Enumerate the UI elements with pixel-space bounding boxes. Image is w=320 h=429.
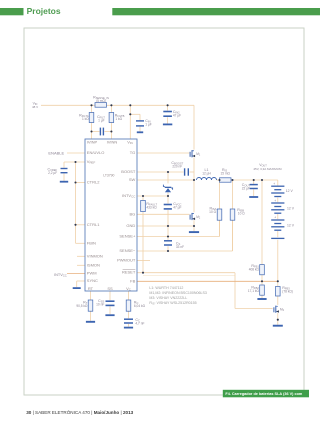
svg-text:FB: FB [130, 278, 135, 283]
svg-text:433 kΩ: 433 kΩ [146, 206, 157, 210]
svg-text:BOOST: BOOST [121, 169, 136, 174]
svg-text:TG: TG [130, 150, 136, 155]
svg-text:IVINN: IVINN [107, 140, 118, 145]
svg-text:ISMON: ISMON [87, 262, 100, 267]
svg-text:CTRL2: CTRL2 [87, 180, 100, 185]
svg-text:VINMON: VINMON [87, 253, 103, 258]
svg-text:15 mΩ: 15 mΩ [220, 171, 230, 175]
svg-text:L1: WURTH 7447112: L1: WURTH 7447112 [149, 286, 183, 290]
svg-text:22 µF: 22 µF [242, 187, 250, 191]
svg-text:12 V: 12 V [286, 189, 294, 193]
svg-text:12 V: 12 V [287, 207, 295, 211]
svg-text:47 µF: 47 µF [173, 206, 181, 210]
svg-text:2,2 µF: 2,2 µF [48, 171, 57, 175]
svg-text:SENSE+: SENSE+ [119, 234, 136, 239]
svg-text:(78 kΩ): (78 kΩ) [282, 290, 293, 294]
svg-text:M3: M3 [280, 308, 285, 313]
svg-text:INTVCC: INTVCC [54, 273, 67, 278]
svg-text:47 µF: 47 µF [173, 113, 181, 117]
svg-text:6,04 kΩ: 6,04 kΩ [134, 304, 146, 308]
svg-text:10 Ω: 10 Ω [209, 210, 216, 214]
svg-text:FBIN: FBIN [87, 240, 96, 245]
svg-text:220 nF: 220 nF [172, 165, 182, 169]
svg-text:+: + [273, 182, 275, 186]
svg-text:SENSE−: SENSE− [119, 248, 136, 253]
svg-text:45V, 3,3A MAXIMUM: 45V, 3,3A MAXIMUM [253, 167, 282, 171]
svg-text:GND: GND [126, 223, 135, 228]
svg-text:(5 mΩ): (5 mΩ) [96, 99, 106, 103]
svg-text:BG: BG [130, 211, 136, 216]
svg-text:408 kΩ: 408 kΩ [249, 268, 260, 272]
svg-text:1 µF: 1 µF [145, 123, 151, 127]
svg-text:1 µF: 1 µF [98, 118, 104, 122]
svg-text:SS: SS [107, 286, 113, 291]
svg-text:M1,M2: INFINEON BSC100N06LS3: M1,M2: INFINEON BSC100N06LS3 [149, 291, 207, 295]
svg-text:PWM: PWM [87, 271, 97, 276]
svg-text:10 nF: 10 nF [96, 302, 104, 306]
svg-text:M1: M1 [196, 152, 201, 157]
svg-text:33 nF: 33 nF [176, 245, 184, 249]
svg-text:RESET: RESET [122, 270, 136, 275]
svg-text:RT: RT [88, 286, 94, 291]
svg-text:ENABLE: ENABLE [48, 151, 64, 156]
svg-text:SYNC: SYNC [87, 278, 98, 283]
svg-text:+: + [274, 199, 276, 203]
svg-text:M3: VISHAY VN2222LL: M3: VISHAY VN2222LL [149, 296, 187, 300]
svg-text:INTVCC: INTVCC [122, 193, 135, 199]
svg-text:4,7 nF: 4,7 nF [135, 321, 144, 325]
svg-text:VIN: VIN [127, 140, 133, 146]
svg-text:12 µH: 12 µH [202, 171, 211, 175]
svg-text:EN/UVLO: EN/UVLO [87, 150, 105, 155]
svg-text:90,5 kΩ: 90,5 kΩ [76, 304, 88, 308]
svg-text:48 V: 48 V [32, 105, 38, 109]
svg-text:30 | SABER ELETRÔNICA 470 | Ma: 30 | SABER ELETRÔNICA 470 | Maio/Junho |… [26, 409, 133, 415]
svg-text:M2: M2 [196, 215, 201, 220]
svg-text:17,1 kΩ: 17,1 kΩ [248, 289, 260, 293]
svg-text:CTRL1: CTRL1 [87, 222, 100, 227]
svg-text:VC: VC [126, 286, 131, 292]
svg-text:LT3790: LT3790 [103, 173, 114, 177]
svg-text:VREF: VREF [87, 159, 96, 165]
svg-text:RIS: VISHAY WSL2512R0155: RIS: VISHAY WSL2512R0155 [149, 301, 196, 306]
svg-text:Projetos: Projetos [27, 6, 61, 16]
svg-text:PWMOUT: PWMOUT [117, 258, 136, 263]
svg-text:12 V: 12 V [287, 224, 295, 228]
svg-text:IVINP: IVINP [87, 140, 98, 145]
svg-text:SW: SW [129, 177, 136, 182]
svg-text:+: + [274, 216, 276, 220]
svg-text:1 kΩ: 1 kΩ [82, 117, 89, 121]
svg-text:F4. Carregador de baterias SLA: F4. Carregador de baterias SLA (36 V) co… [225, 392, 302, 396]
svg-text:1 kΩ: 1 kΩ [115, 117, 122, 121]
svg-text:10 Ω: 10 Ω [238, 212, 245, 216]
